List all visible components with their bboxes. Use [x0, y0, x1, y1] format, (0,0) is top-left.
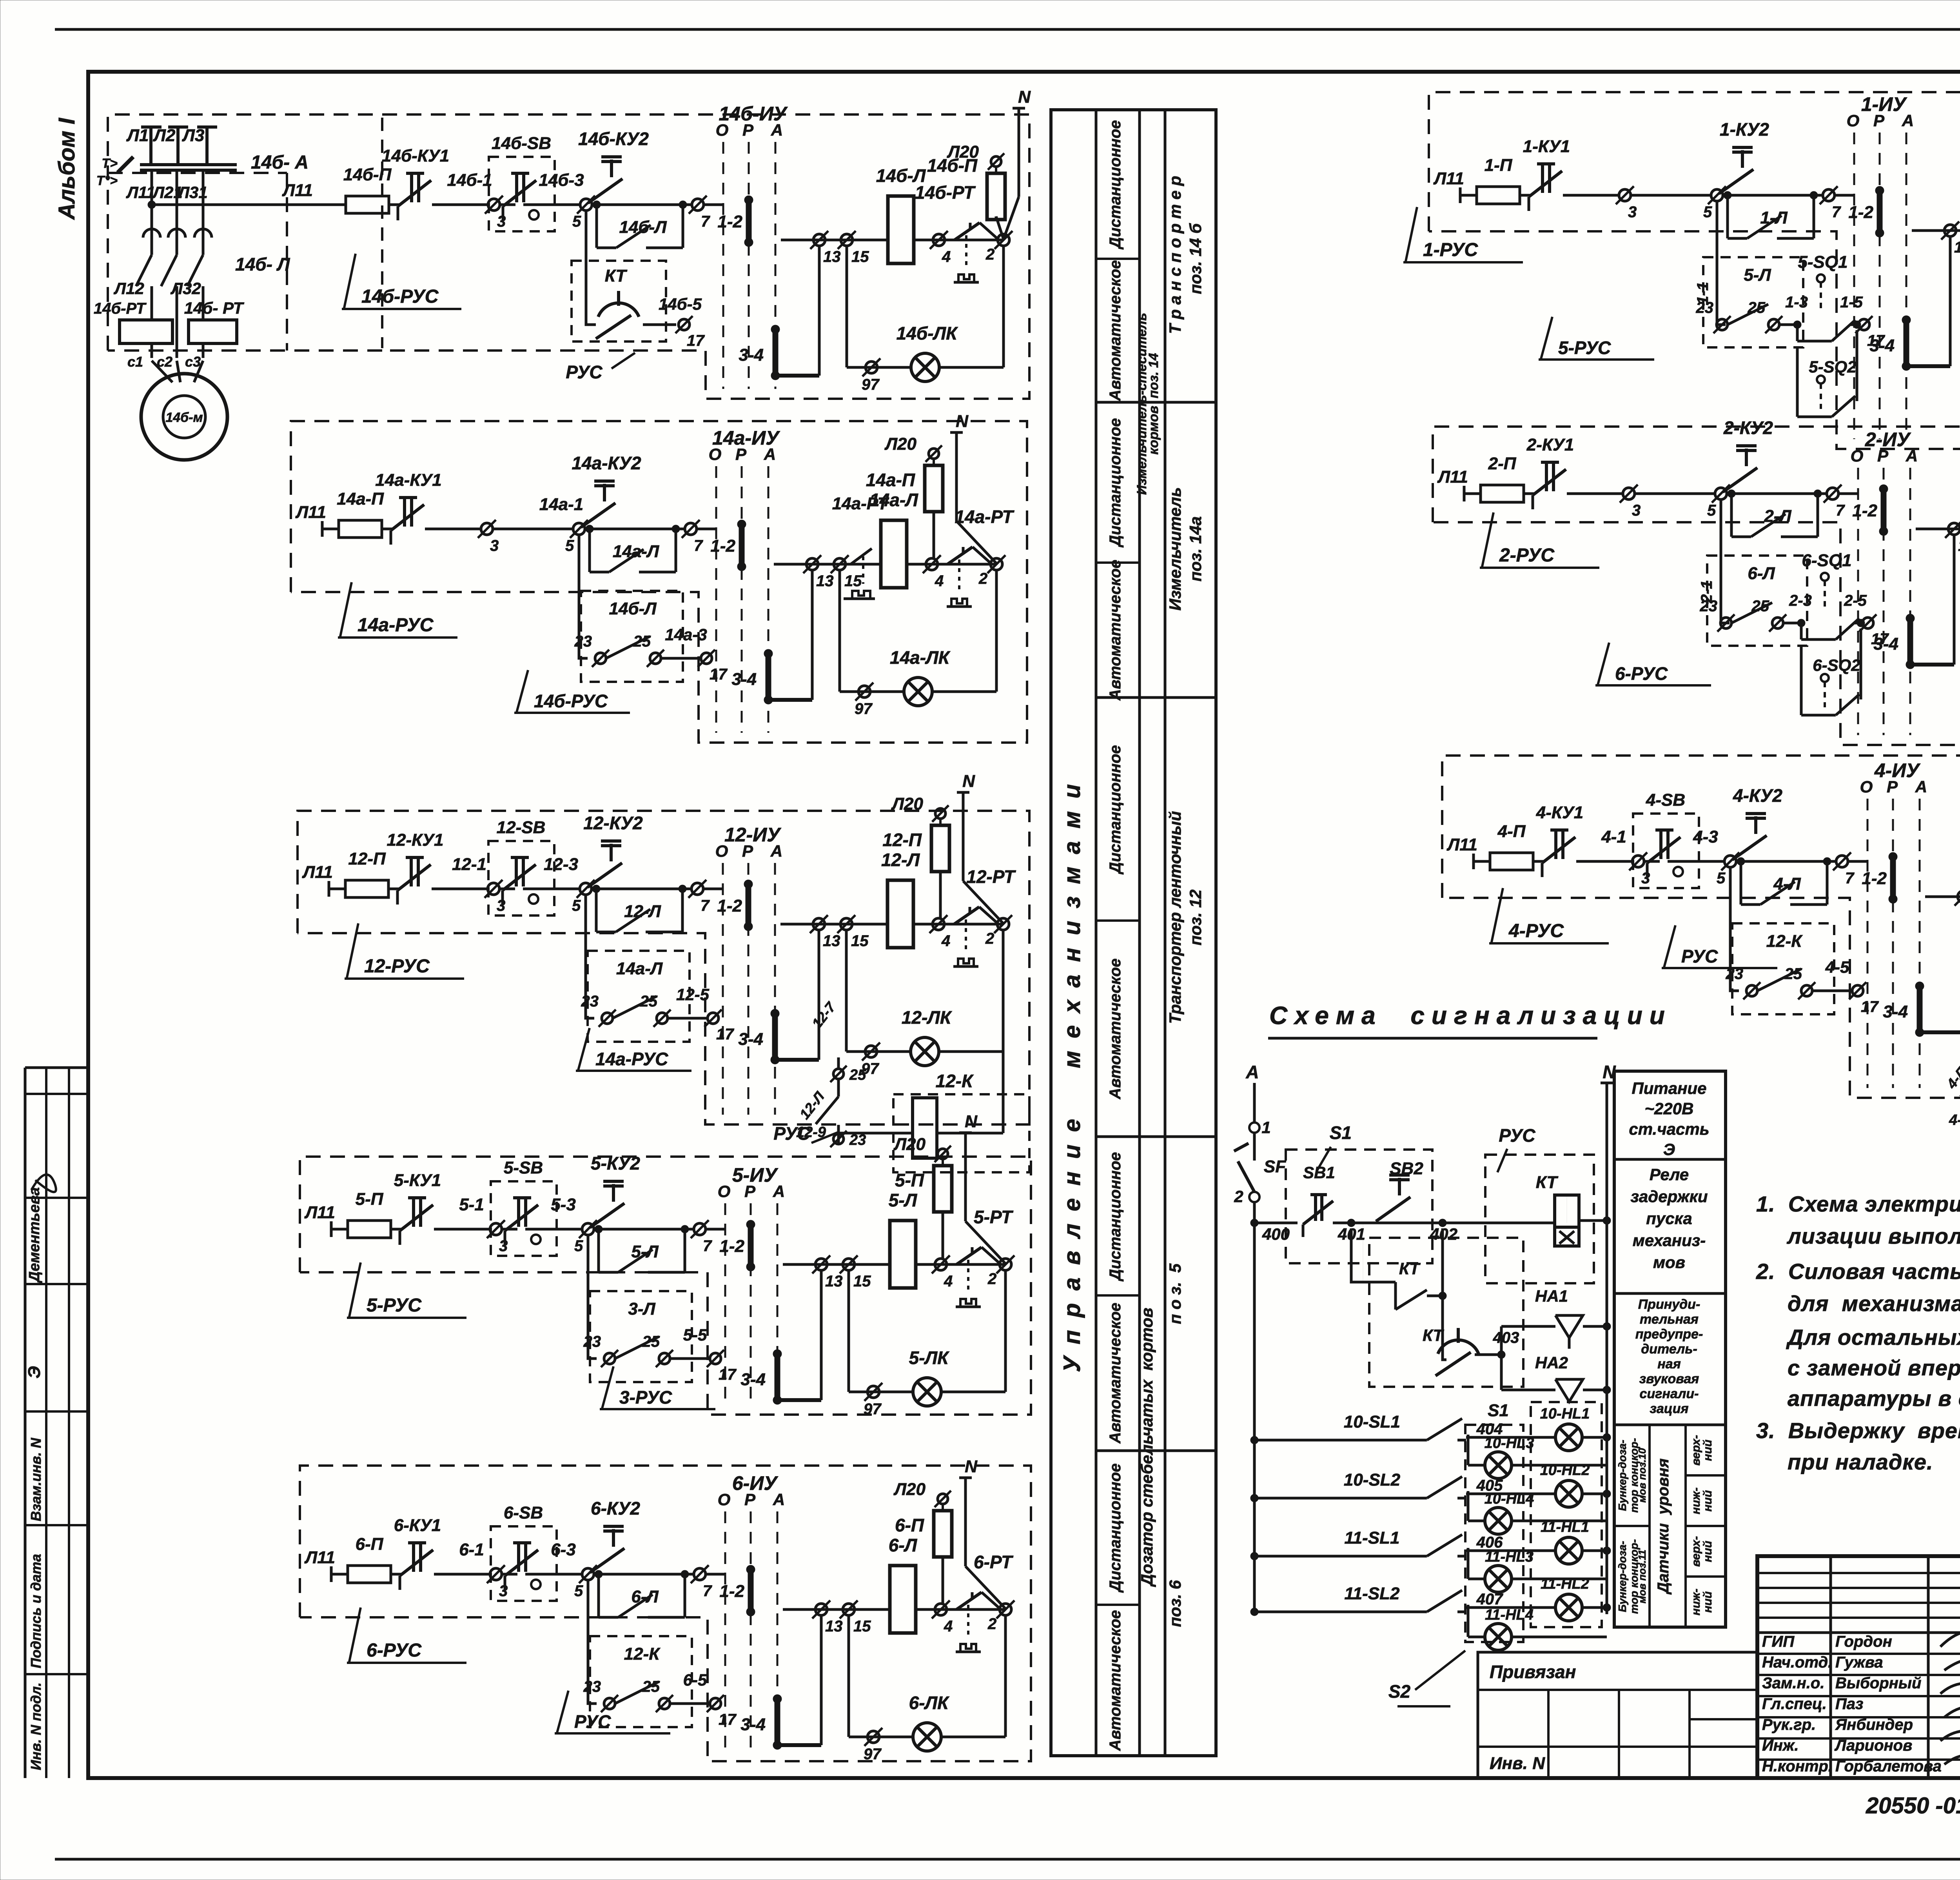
svg-text:поз. 14а: поз. 14а [1186, 516, 1205, 581]
wire Л11 to fuse 12-П [329, 888, 345, 890]
node 23 [1717, 319, 1728, 330]
wire lamp rail of 12 [846, 1050, 910, 1053]
seal-in contact 2-Л [1730, 494, 1733, 537]
svg-text:Подпись и дата: Подпись и дата [28, 1554, 44, 1668]
seal-in contact 5-Л [597, 1229, 600, 1272]
selector bar 3-4 of 12 [772, 1014, 778, 1060]
wire 402 to КТ coil [1450, 1222, 1553, 1224]
label 12-РУС [347, 923, 358, 979]
svg-text:2: 2 [987, 1270, 996, 1288]
svg-text:мов поз.11: мов поз.11 [1636, 1549, 1648, 1603]
svg-text:механиз-: механиз- [1633, 1231, 1706, 1250]
svg-text:7: 7 [703, 1582, 712, 1600]
svg-text:Датчики уровня: Датчики уровня [1655, 1459, 1672, 1595]
phase stub Л3 [205, 127, 209, 165]
svg-text:5-РУС: 5-РУС [1558, 338, 1611, 358]
left table auto/dist sub-dividers [1096, 258, 1140, 260]
contact 23-25 [615, 1337, 659, 1359]
node 25 [657, 1013, 668, 1024]
svg-text:17: 17 [1861, 998, 1879, 1015]
node 13 of 4 [1958, 891, 1960, 903]
signal lamp 11-HL2 [1555, 1594, 1582, 1621]
svg-text:14б-Л: 14б-Л [619, 218, 667, 237]
seal-in contact 12-Л [595, 889, 598, 932]
wire SB to node 5 [525, 1573, 581, 1576]
svg-text:3-4: 3-4 [740, 1715, 766, 1734]
node 7 of 12 [691, 883, 703, 895]
svg-text:14а-П: 14а-П [866, 470, 915, 490]
label 14б-РУС [516, 670, 528, 714]
svg-text:10-HL3: 10-HL3 [1485, 1435, 1534, 1451]
interlock chain to relay 12-К [837, 1057, 840, 1068]
wire node 3 to node 5 [1631, 194, 1710, 197]
node 2 of 14а [991, 558, 1002, 570]
svg-text:зация: зация [1650, 1401, 1688, 1416]
svg-text:для механизма поз. 14 б .: для механизма поз. 14 б . [1788, 1291, 1960, 1316]
svg-text:4-9: 4-9 [1949, 1112, 1960, 1128]
pushbutton 5-КУ2 [612, 1184, 615, 1202]
svg-text:14б-Л: 14б-Л [609, 599, 657, 618]
pushbutton 14б-КУ2 [610, 160, 613, 177]
dashed enclosure 2-РУС / 2-ИУ [1433, 427, 1960, 745]
svg-text:15: 15 [851, 932, 869, 950]
svg-text:403: 403 [1493, 1329, 1519, 1346]
node 97 of 14б [866, 361, 877, 373]
node 23 [1746, 985, 1757, 996]
dashed divider of 14б-РУС area [381, 118, 383, 348]
wire node 5 to node 7 [592, 888, 691, 890]
wire node 3 to node 5 [1635, 492, 1714, 495]
wire node 7 to selector [1835, 194, 1854, 197]
svg-text:5: 5 [572, 213, 581, 230]
wire node 15 to lamp rail [845, 930, 848, 1052]
auxiliary contact 12-К enclosure [590, 1636, 692, 1727]
svg-text:14а-Л: 14а-Л [613, 542, 659, 561]
svg-text:3-4: 3-4 [738, 1030, 763, 1049]
svg-text:3: 3 [497, 897, 505, 914]
switch 4-SB enclosure [1633, 814, 1699, 888]
svg-text:Ларионов: Ларионов [1834, 1737, 1912, 1754]
svg-text:5-Л: 5-Л [631, 1242, 659, 1261]
node 4 of 14б [933, 234, 945, 246]
pushbutton 5-КУ1 [412, 1198, 415, 1227]
node 5 of 12 [580, 883, 592, 895]
svg-text:23: 23 [574, 633, 592, 650]
svg-text:14б-РУС: 14б-РУС [361, 286, 439, 307]
wire node 5 to КТ contact [586, 210, 596, 325]
svg-text:12-9: 12-9 [796, 1124, 826, 1141]
contact 23-25 [1728, 304, 1768, 325]
switch 6-SB enclosure [491, 1526, 557, 1601]
node 13 of 12 [813, 918, 825, 930]
svg-text:6-3: 6-3 [551, 1540, 576, 1559]
wire bar 3-4 to node 13 riser [768, 698, 812, 702]
wire РТ to node 2 [982, 1247, 1000, 1264]
svg-text:Бункер-доза-: Бункер-доза- [1616, 1541, 1628, 1612]
svg-text:12-КУ2: 12-КУ2 [583, 813, 643, 833]
selector bar 1-2 of 14а [739, 524, 745, 567]
thermal contact 14а-РТ (left) [846, 563, 851, 566]
node 13 of 14б [813, 234, 825, 246]
svg-text:3. Выдержку времени контакто: 3. Выдержку времени контактов реле време… [1756, 1418, 1960, 1443]
signal lamp 10-HL3 [1485, 1452, 1512, 1479]
svg-text:7: 7 [694, 537, 703, 554]
svg-text:ст.часть: ст.часть [1629, 1120, 1709, 1138]
svg-text:10-SL2: 10-SL2 [1344, 1470, 1401, 1489]
label 6-РУС [349, 1608, 361, 1664]
dashed enclosure 12-РУС / 12-ИУ [298, 811, 1029, 1124]
wire contactor bus of 2 [1916, 528, 1960, 530]
node 5 of 4 [1724, 856, 1736, 867]
svg-text:5-5: 5-5 [683, 1326, 707, 1344]
svg-text:15: 15 [844, 572, 862, 590]
wire fuse to button 6-КУ1 [391, 1573, 401, 1576]
seal-in contact 1-Л [1726, 195, 1729, 238]
node 23 [595, 653, 606, 664]
svg-text:5-ИУ: 5-ИУ [732, 1164, 779, 1186]
selector bar 3-4 of 2 [1907, 618, 1913, 665]
svg-text:1-2: 1-2 [717, 896, 742, 915]
wire 25 to node 17 [670, 1357, 710, 1360]
svg-text:Нач.отд.: Нач.отд. [1762, 1654, 1832, 1671]
svg-text:ниж-: ниж- [1690, 1488, 1702, 1515]
svg-text:6-РУС: 6-РУС [1615, 663, 1668, 684]
svg-text:4-ИУ: 4-ИУ [1874, 759, 1921, 781]
selector bar 1-2 of 1 [1877, 191, 1883, 233]
wire КУ1 to node 3 [425, 528, 481, 530]
svg-text:14б- Л: 14б- Л [235, 254, 290, 274]
svg-text:5-ЛК: 5-ЛК [909, 1348, 950, 1368]
svg-text:Янбиндер: Янбиндер [1835, 1716, 1913, 1733]
selector bar 3-4 of 6 [775, 1699, 780, 1745]
wire node 7 to selector [706, 1573, 725, 1576]
svg-text:РУС: РУС [574, 1711, 611, 1732]
node 25 [1772, 618, 1783, 628]
wire 25 to node 17 [668, 1017, 707, 1020]
svg-text:Инж.: Инж. [1762, 1737, 1799, 1754]
svg-text:12-5: 12-5 [676, 985, 710, 1004]
neutral N drop of 5 [964, 1133, 967, 1221]
wire node 5 to interlock contacts [1721, 499, 1730, 623]
wire КУ1 to node 3 [432, 203, 488, 206]
svg-text:6-1: 6-1 [459, 1540, 484, 1559]
svg-text:14а-РТ: 14а-РТ [955, 507, 1014, 527]
wire node 15 to lamp rail [848, 1270, 850, 1392]
svg-text:Реле: Реле [1650, 1165, 1689, 1184]
label 14а-РУС [340, 582, 352, 638]
signal legend table [1614, 1071, 1726, 1627]
node 2 of 12 [997, 918, 1009, 930]
neutral N drop of 14а [955, 432, 958, 521]
svg-text:с заменой впередистоящего инде: с заменой впередистоящего индекса в обоз… [1788, 1355, 1960, 1380]
wire node 3 to switch 12-SB [500, 888, 515, 890]
node 17 of 6 [710, 1698, 721, 1709]
svg-text:3-4: 3-4 [739, 345, 764, 365]
signal lamp 11-HL1 [1555, 1537, 1582, 1564]
wire node 5 down to auxiliary contact [586, 894, 594, 1018]
svg-text:15: 15 [853, 1618, 871, 1635]
wire node 2 to lamp rail [1004, 1615, 1007, 1737]
svg-text:Л11: Л11 [1437, 467, 1468, 487]
wire bar 3-4 to node 13 riser [777, 1398, 821, 1402]
svg-text:25: 25 [849, 1067, 866, 1083]
wire node 5 to interlock contacts [1717, 201, 1726, 325]
svg-text:4-Л: 4-Л [1773, 874, 1801, 894]
pushbutton 12-КУ2 [610, 844, 613, 861]
svg-text:Л20: Л20 [893, 1480, 926, 1499]
svg-text:4-РУС: 4-РУС [1508, 921, 1564, 941]
wire node 5 to node 7 [1727, 492, 1826, 495]
svg-text:14а-1: 14а-1 [539, 495, 584, 514]
svg-text:23: 23 [583, 1333, 601, 1350]
svg-text:Л11: Л11 [282, 181, 313, 200]
svg-text:14а-3: 14а-3 [665, 625, 707, 644]
signal lamp 14а-ЛК [904, 678, 932, 706]
seal-in contact 14а-Л [588, 529, 591, 572]
svg-text:10-HL2: 10-HL2 [1540, 1462, 1590, 1479]
svg-text:1-2: 1-2 [1848, 203, 1873, 222]
svg-text:5: 5 [1707, 502, 1716, 519]
svg-text:6-ИУ: 6-ИУ [732, 1472, 779, 1494]
selector bar 3-4 of 5 [775, 1354, 780, 1400]
svg-text:Зам.н.о.: Зам.н.о. [1762, 1675, 1824, 1692]
node 97 of 14а [858, 686, 870, 698]
power sub-enclosure 14б [108, 172, 287, 174]
wire fuse to button 2-КУ1 [1524, 492, 1534, 495]
svg-text:Л20: Л20 [893, 1135, 926, 1154]
selector bar 1-2 of 6 [748, 1569, 754, 1612]
contact 23-25 [1731, 603, 1772, 623]
wire node 3 to switch 5-SB [502, 1228, 517, 1231]
svg-text:Н.контр.: Н.контр. [1762, 1758, 1833, 1775]
svg-text:12-ЛК: 12-ЛК [902, 1007, 952, 1028]
svg-text:17: 17 [719, 1711, 737, 1728]
node Л11 feed of 5 [330, 1221, 333, 1237]
svg-text:20550 -01 46: 20550 -01 46 [1866, 1793, 1960, 1818]
svg-text:сигнали-: сигнали- [1640, 1386, 1699, 1401]
node Л11 feed of 12 [328, 881, 330, 897]
wire bar 3-4 to node 13 riser [775, 374, 819, 378]
wire node 3 to switch 6-SB [502, 1573, 517, 1576]
svg-text:с1: с1 [127, 354, 143, 370]
svg-text:1-РУС: 1-РУС [1423, 240, 1478, 260]
label 4-РУС [1491, 888, 1503, 944]
contact 23-25 [615, 1682, 659, 1704]
svg-text:2-3: 2-3 [1789, 592, 1812, 609]
circuit breaker 14б-А [140, 163, 237, 166]
svg-text:25: 25 [1784, 965, 1802, 983]
svg-text:аппаратуры в соответствии с по: аппаратуры в соответствии с позицией мех… [1788, 1386, 1960, 1411]
node 7 of 1 [1823, 189, 1835, 201]
svg-text:5: 5 [574, 1582, 583, 1600]
node 5 of 6 [582, 1568, 594, 1580]
svg-text:6-SB: 6-SB [504, 1503, 543, 1522]
wire node 5 down to auxiliary contact [579, 534, 588, 658]
svg-text:N: N [962, 772, 975, 791]
dashed enclosure 5-РУС / 5-ИУ [300, 1157, 1031, 1415]
svg-text:О: О [718, 1182, 731, 1201]
auxiliary contact 14а-Л enclosure [588, 951, 690, 1042]
switch 12-SB [515, 857, 518, 886]
label 1-РУС [1405, 207, 1417, 263]
svg-text:Питание: Питание [1632, 1079, 1707, 1097]
wire 25 to node 17 [670, 1702, 710, 1705]
node 3 of 4 [1632, 856, 1644, 867]
svg-text:с3: с3 [185, 354, 201, 370]
svg-text:4-3: 4-3 [1693, 827, 1718, 846]
svg-text:14а-П: 14а-П [337, 489, 384, 509]
fuse 12-П [345, 880, 388, 897]
svg-text:Л11: Л11 [126, 183, 155, 202]
wire node 15 to lamp rail [848, 1615, 850, 1737]
svg-text:5-КУ2: 5-КУ2 [591, 1153, 640, 1173]
svg-text:Дозатор стебельчатых кортов: Дозатор стебельчатых кортов [1138, 1308, 1156, 1587]
svg-text:10-HL1: 10-HL1 [1540, 1406, 1590, 1422]
svg-text:4-КУ2: 4-КУ2 [1733, 785, 1782, 806]
svg-text:предупре-: предупре- [1635, 1327, 1703, 1342]
dashed enclosure 14б-РУС row [108, 114, 1029, 399]
dashed enclosure 6-РУС / 6-ИУ [300, 1466, 1031, 1761]
svg-text:6-SQ2: 6-SQ2 [1813, 656, 1860, 675]
contact 23-25 [1757, 969, 1801, 991]
svg-text:3: 3 [499, 1237, 508, 1255]
interlock contact 5-Л enclosure [1703, 257, 1803, 347]
svg-text:пуска: пуска [1646, 1209, 1692, 1228]
svg-text:Гордон: Гордон [1835, 1633, 1892, 1650]
sheet bottom margin line [55, 1858, 1960, 1861]
wire КУ1 to node 3 [432, 888, 487, 890]
svg-text:17: 17 [687, 332, 705, 349]
svg-text:14б-ЛК: 14б-ЛК [897, 323, 958, 343]
svg-text:3-Л: 3-Л [628, 1299, 655, 1319]
svg-text:14а-РУС: 14а-РУС [358, 615, 434, 636]
node 403 [1475, 1353, 1497, 1356]
wire contactor bus of 1 [1912, 229, 1960, 232]
dashed enclosure 14а-РУС / 14а-ИУ [291, 421, 1027, 743]
wire bar 3-4 to node 13 riser [777, 1743, 821, 1747]
svg-text:14б-КУ1: 14б-КУ1 [382, 146, 449, 165]
svg-text:Схема сигнализации: Схема сигнализации [1269, 1001, 1672, 1030]
svg-text:1. Схема электрическая принци: 1. Схема электрическая принципиальная уп… [1756, 1192, 1960, 1216]
auxiliary contact 14б-Л enclosure [581, 591, 683, 682]
svg-text:1-3: 1-3 [1785, 294, 1808, 311]
svg-text:14а-Л: 14а-Л [869, 490, 918, 510]
КТ delayed contact [1457, 1328, 1460, 1343]
level sensor contact 10-SL2 [1250, 1494, 1258, 1502]
svg-text:3-4: 3-4 [740, 1370, 766, 1389]
svg-text:РУС: РУС [1499, 1125, 1535, 1146]
РУС enclosure of signal scheme [1485, 1155, 1594, 1283]
wire node 3 to switch 14б-SB [500, 203, 515, 206]
interlock contact 6-Л enclosure [1707, 556, 1807, 646]
switch 14б-SB enclosure [489, 157, 555, 231]
control tap node on Л11 [148, 201, 156, 209]
svg-text:3: 3 [490, 537, 499, 554]
svg-text:Автоматическое: Автоматическое [1107, 1610, 1124, 1751]
svg-text:SB1: SB1 [1303, 1163, 1335, 1182]
svg-text:Э: Э [25, 1366, 44, 1379]
svg-text:1-КУ1: 1-КУ1 [1523, 137, 1570, 156]
svg-text:2-5: 2-5 [1844, 592, 1867, 609]
svg-text:7: 7 [701, 213, 710, 230]
wire КТ to node 17 [643, 323, 676, 326]
wire КУ1 to node 3 [434, 1573, 490, 1576]
svg-text:23: 23 [581, 993, 599, 1010]
svg-text:11-HL3: 11-HL3 [1485, 1549, 1534, 1565]
sensor feeder drop [1253, 1223, 1256, 1612]
svg-text:1-2: 1-2 [717, 212, 742, 231]
left machine table frame [1051, 110, 1216, 1756]
node 1 of signal feeder [1249, 1123, 1259, 1133]
svg-text:7: 7 [701, 897, 710, 914]
svg-text:15: 15 [853, 1273, 871, 1290]
sheet top margin line [55, 28, 1960, 31]
svg-text:14б-3: 14б-3 [539, 171, 584, 190]
wire Л11 to fuse 4-П [1474, 860, 1490, 863]
svg-text:12-К: 12-К [936, 1071, 974, 1091]
signal lamp 6-ЛК [913, 1723, 941, 1751]
svg-text:7: 7 [1836, 502, 1845, 519]
svg-text:5-Л: 5-Л [889, 1190, 918, 1210]
signal lamp 10-HL1 [1555, 1424, 1582, 1451]
wire control tap to fuse 14б-П [152, 203, 346, 206]
svg-text:12-КУ1: 12-КУ1 [387, 830, 444, 850]
svg-text:Л12: Л12 [113, 279, 144, 298]
svg-text:14б-SB: 14б-SB [492, 134, 551, 153]
wire РТ to node 2 [980, 223, 998, 239]
wire contactor bus of 14а [774, 563, 881, 566]
node 25 [659, 1353, 670, 1364]
svg-text:6-SQ1: 6-SQ1 [1802, 551, 1851, 570]
svg-text:мов поз.10: мов поз.10 [1636, 1448, 1648, 1503]
fuse 6-П of lamp circuit [938, 1494, 948, 1504]
svg-text:12-К: 12-К [1766, 932, 1803, 951]
node 13 of 6 [815, 1604, 827, 1615]
svg-text:5-Л: 5-Л [1744, 265, 1771, 285]
wire Л11 to fuse 2-П [1464, 492, 1481, 495]
node 402 [1439, 1219, 1446, 1227]
svg-text:1: 1 [1261, 1118, 1270, 1137]
seal-in contact 14б-Л [595, 205, 598, 248]
node 25 [659, 1698, 670, 1709]
svg-text:2. Силовая часть управления э: 2. Силовая часть управления электроприво… [1756, 1259, 1960, 1284]
wire КУ1 to node 3 [1567, 492, 1622, 495]
svg-text:14б-П: 14б-П [343, 165, 392, 184]
svg-text:Л1: Л1 [126, 126, 149, 145]
node 7 of 2 [1827, 488, 1838, 500]
node 2 of 14б [998, 234, 1009, 246]
svg-text:Рук.гр.: Рук.гр. [1762, 1716, 1816, 1733]
svg-text:Горбалетова: Горбалетова [1835, 1758, 1942, 1775]
wire node 5 down to auxiliary contact [588, 1235, 597, 1359]
node 13 of 2 [1948, 523, 1960, 535]
thermal contact 14б-РТ [943, 239, 955, 242]
svg-text:12-3: 12-3 [544, 855, 578, 874]
svg-text:23: 23 [583, 1678, 601, 1695]
wire contactor bus of 14б [781, 239, 888, 242]
wire 25 to limit switch 6-SQ1 [1783, 622, 1801, 625]
label РУС [557, 1691, 568, 1734]
svg-text:Т>: Т> [102, 156, 118, 171]
svg-text:S1: S1 [1488, 1401, 1509, 1420]
svg-text:13: 13 [1958, 537, 1960, 554]
svg-text:п о з. 5: п о з. 5 [1166, 1263, 1184, 1324]
svg-text:6-П: 6-П [356, 1535, 384, 1554]
seal-in contact 6-Л [597, 1574, 600, 1617]
svg-text:12-Л: 12-Л [624, 902, 661, 921]
selector dashed lines О Р А of 4-ИУ [1867, 799, 1869, 1088]
node 4 of 14а [926, 558, 938, 570]
